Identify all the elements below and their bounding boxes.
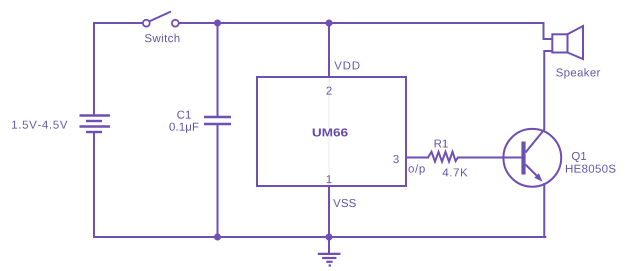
label battery value — [12, 121, 67, 129]
wire C1 branch upper — [217, 23, 219, 117]
wire speaker bottom to collector — [544, 51, 552, 130]
pin 2 — [326, 87, 331, 95]
wire VSS — [328, 186, 330, 237]
label Switch — [145, 34, 180, 42]
node bottom C1 junction — [214, 234, 221, 241]
faint line through IC — [328, 78, 330, 185]
wire bottom rail — [94, 236, 545, 238]
wire left rail upper — [93, 23, 95, 115]
label VSS — [333, 199, 356, 207]
label R1 value — [443, 169, 468, 177]
switch S1 — [143, 12, 179, 27]
wire left rail lower — [93, 132, 95, 237]
wire pin3 to resistor — [406, 157, 428, 159]
emitter arrowhead — [534, 173, 542, 182]
wire top rail right segment — [180, 22, 544, 24]
battery B1 — [80, 116, 111, 133]
wire top rail left segment — [94, 22, 142, 24]
label R1 — [435, 140, 448, 148]
IC U1 UM66 box — [257, 77, 406, 186]
label C1 — [177, 111, 191, 119]
node top VDD junction — [326, 20, 333, 27]
pin 3 — [393, 155, 399, 163]
label C1 value — [169, 123, 198, 133]
ground — [318, 237, 341, 266]
label Q1 part — [566, 165, 616, 173]
label VDD — [334, 62, 359, 70]
wire VDD — [328, 23, 330, 77]
resistor R1 — [428, 152, 458, 162]
wire C1 branch lower — [217, 124, 219, 237]
wire emitter to bottom rail — [543, 184, 545, 237]
label Q1 — [572, 152, 586, 162]
capacitor C1 — [204, 117, 231, 124]
speaker LS1 — [552, 26, 583, 59]
label Speaker — [556, 68, 600, 79]
label o/p — [409, 164, 425, 175]
pin 1 — [327, 175, 332, 183]
node top C1 junction — [214, 20, 221, 27]
transistor Q1 — [503, 129, 561, 187]
wire speaker top drop — [544, 23, 553, 39]
node bottom ground junction — [326, 234, 333, 241]
label UM66 — [313, 128, 348, 136]
wire resistor to transistor base — [458, 157, 521, 159]
